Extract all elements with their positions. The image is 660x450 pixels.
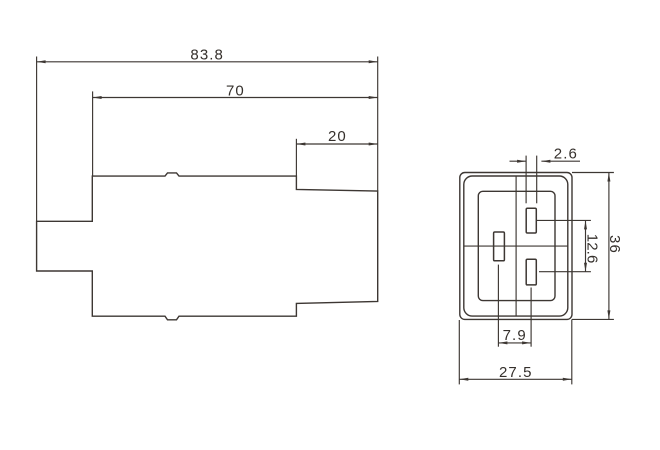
arrowhead right 27.5 xyxy=(563,378,572,381)
extension line from top slot xyxy=(537,219,591,221)
extension line left (x=92.6) xyxy=(92,91,94,176)
dim line 36 xyxy=(608,173,610,320)
recess rounded rectangle xyxy=(478,191,555,300)
arrowhead down 12.6 xyxy=(584,263,587,272)
extension line left slot edge xyxy=(525,156,527,204)
arrowhead left 70 xyxy=(93,96,102,99)
arrowhead right 83.8 xyxy=(369,60,378,63)
extension line left xyxy=(458,320,460,384)
extension line from bottom slot xyxy=(530,288,532,347)
arrowhead pointing right at 2.6 xyxy=(517,160,526,163)
extension line right xyxy=(571,319,573,384)
horizontal centerline xyxy=(464,245,568,247)
dim line 27.5 xyxy=(459,378,572,380)
extension line from bottom slot xyxy=(539,271,591,273)
connector body outline (side view) xyxy=(37,173,378,320)
arrowhead up 36 xyxy=(607,173,610,182)
arrowhead left 27.5 xyxy=(459,378,468,381)
arrowhead right 7.9 xyxy=(522,341,531,344)
earth pin slot (left) xyxy=(494,232,505,261)
extension line top xyxy=(572,172,614,174)
arrowhead right 70 xyxy=(369,96,378,99)
svg-text:27.5: 27.5 xyxy=(499,364,533,381)
svg-text:12.6: 12.6 xyxy=(584,234,601,264)
svg-text:7.9: 7.9 xyxy=(503,327,527,344)
inner face rounded rectangle xyxy=(464,176,568,316)
dimension 70 xyxy=(93,91,378,176)
arrowhead right 20 xyxy=(369,143,378,146)
dimension 7.9 xyxy=(498,265,531,347)
svg-text:36: 36 xyxy=(606,235,623,254)
extension line bottom xyxy=(572,318,614,320)
extension line right slot edge xyxy=(536,156,538,204)
arrowhead down 36 xyxy=(607,310,610,319)
outer face rounded rectangle xyxy=(460,173,572,320)
dimension 2.6 xyxy=(510,156,581,204)
dimension 83.8 xyxy=(37,57,378,222)
arrowhead up 12.6 xyxy=(584,220,587,229)
arrowhead left 7.9 xyxy=(498,341,507,344)
vertical centerline xyxy=(515,176,517,316)
dim line 12.6 xyxy=(585,220,587,271)
svg-text:83.8: 83.8 xyxy=(190,47,224,64)
top pin slot xyxy=(526,208,536,233)
dim line 20 xyxy=(296,143,377,145)
arrowhead left 83.8 xyxy=(37,60,46,63)
dim leader right under text xyxy=(541,160,580,162)
arrowhead pointing left at 2.6 xyxy=(541,160,550,163)
dim line 70 xyxy=(93,97,378,99)
dim line 7.9 xyxy=(498,342,531,344)
svg-text:20: 20 xyxy=(328,128,347,145)
extension line left (x=36.6) xyxy=(36,57,38,222)
bottom pin slot xyxy=(526,259,536,285)
dim leader left xyxy=(510,160,527,162)
dim line 83.8 xyxy=(37,61,378,63)
dimension 27.5 xyxy=(459,319,572,384)
extension line right (x=377.7) xyxy=(377,57,379,192)
extension line left (x=296.4) xyxy=(295,139,297,176)
dimension 12.6 xyxy=(537,220,591,271)
svg-text:70: 70 xyxy=(226,82,245,99)
extension line from earth slot xyxy=(497,265,499,347)
arrowhead left 20 xyxy=(296,143,305,146)
dimension 20 xyxy=(296,139,377,176)
dimension 36 xyxy=(572,173,614,320)
svg-text:2.6: 2.6 xyxy=(554,145,578,162)
